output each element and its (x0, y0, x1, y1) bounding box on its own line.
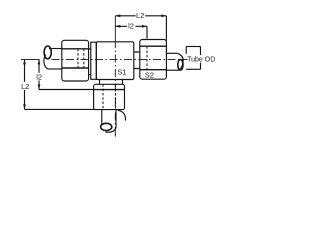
Tube OD bracket top line (186, 46, 200, 48)
left nut inner face line (dashed) (83, 49, 85, 68)
left nut body (62, 40, 89, 81)
left collar between nut and washer (89, 49, 91, 75)
wire: branch centerline bottom stub (114, 134, 116, 136)
Tube OD bracket bottom line (186, 68, 200, 70)
svg-text:S2: S2 (145, 70, 154, 79)
svg-text:l2: l2 (128, 21, 134, 30)
node B: top dimension l2 line (115, 21, 147, 30)
svg-text:Tube OD: Tube OD (187, 56, 215, 63)
left tube end cap arc (44, 55, 48, 70)
branch tube left wall (101, 110, 103, 124)
body (center block) (96, 42, 134, 80)
left nut bottom facet line (62, 67, 89, 69)
branch nut facet line right (115, 84, 117, 109)
branch nut facet line left (102, 84, 104, 109)
branch collar verticals (100, 80, 123, 85)
wire: L2 right extension line (165, 16, 167, 41)
right stud lines between body and right nut (134, 52, 140, 69)
right nut hidden tube line (dashed) (146, 46, 148, 69)
right tube top wall (166, 52, 177, 54)
svg-text:L2: L2 (21, 82, 29, 91)
node A: top dimension L2 line (115, 11, 166, 20)
right nut top facet line (140, 45, 167, 47)
left tube top wall (49, 48, 62, 50)
wire: L2 bottom extension to branch nut bottom (25, 108, 96, 110)
right tube bottom wall (166, 69, 179, 71)
right nut bottom facet line (140, 69, 167, 71)
wire: l2 bottom extension to branch nut left edge (39, 89, 94, 91)
wire: horizontal run centerline (dash-dot) (21, 58, 40, 60)
node C: left vertical dimension L2 (x=24.5) (21, 59, 30, 109)
branch skirt arc (118, 110, 126, 120)
branch nut (94, 84, 125, 109)
left tube bore ellipse (bold) (44, 46, 51, 59)
wire: vertical branch centerline / extension (x=115.3) (114, 16, 116, 40)
left nut top facet line (62, 48, 89, 50)
right tube end cap arc (177, 53, 183, 70)
node D: left vertical dimension l2 (x=39) (35, 59, 43, 89)
left washer (91, 42, 97, 79)
svg-text:L2: L2 (136, 11, 144, 20)
branch tube right wall (115, 110, 117, 129)
svg-text:l2: l2 (36, 72, 42, 81)
left tube bottom wall (48, 68, 62, 70)
branch tube end cap arc (105, 128, 116, 132)
branch tube bore ellipse (bold) (101, 123, 112, 130)
label Tube OD (187, 55, 215, 63)
wire: l2 right extension line (146, 26, 148, 38)
left nut hidden tube line (dashed) (77, 49, 79, 68)
Tube OD bracket right vertical (200, 47, 202, 70)
branch nut ring line (94, 89, 125, 91)
right tube bore ellipse (bold) (178, 60, 183, 71)
right nut (140, 40, 167, 80)
svg-text:S1: S1 (117, 68, 126, 77)
Tube OD bracket left tick (185, 47, 187, 54)
